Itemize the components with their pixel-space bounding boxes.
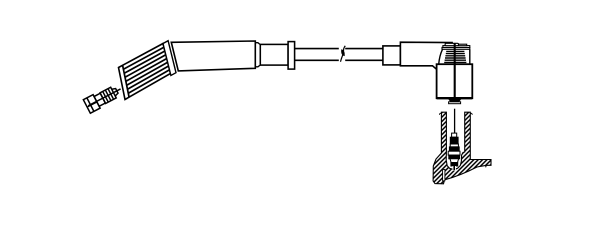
main cylinder body: [171, 41, 255, 71]
left wall top flare: [439, 113, 441, 115]
spark plug body: [448, 133, 460, 170]
end cap band: [123, 65, 130, 97]
ribs: [123, 47, 169, 93]
wire left segment: [295, 48, 339, 50]
arm bottom tick: [485, 165, 488, 167]
step collar: [255, 43, 260, 67]
nut: [83, 95, 100, 114]
boot collar flange: [163, 41, 176, 76]
collar: [94, 93, 105, 106]
elbow main body: [400, 42, 453, 69]
flange: [288, 42, 295, 70]
boot body: [119, 44, 171, 100]
tip: [112, 87, 119, 95]
right wall top flare: [470, 113, 472, 115]
foot white notch: [443, 170, 445, 181]
cylinder bottom thick edge: [437, 97, 473, 99]
elbow sleeve: [383, 46, 401, 65]
spark plug stud line: [454, 109, 456, 133]
ribbed crimp: [100, 87, 116, 103]
elbow vertical cylinder: [437, 64, 473, 98]
elbow cap (stepped dome): [442, 43, 470, 49]
bottom nipple: [449, 99, 461, 102]
spark plug boot (ribbed, diagonal): [119, 44, 171, 100]
wire right segment: [345, 48, 383, 50]
terminal screw assembly (left end): [83, 82, 124, 113]
elbow center line: [454, 43, 456, 99]
elbow accordion ribs: [439, 49, 470, 64]
wire break mark: [341, 46, 346, 62]
axis line: [88, 89, 120, 106]
engine head cross-section (hatched blob): [433, 112, 491, 184]
small cylinder: [260, 44, 288, 65]
